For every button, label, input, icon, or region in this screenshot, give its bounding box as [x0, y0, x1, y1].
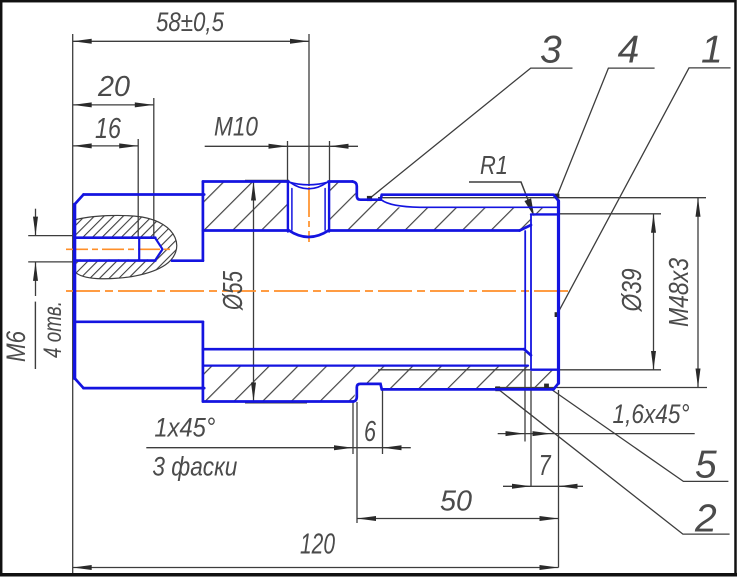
- arrows 6 (outside): [334, 445, 353, 450]
- svg-text:R1: R1: [480, 150, 508, 180]
- svg-text:M10: M10: [214, 112, 258, 142]
- M10 root line right: [324, 189, 326, 231]
- through bore bottom edge: [75, 320, 203, 323]
- thread crest bottom: [382, 383, 559, 389]
- M10 thread hole side right: [328, 183, 330, 232]
- flange top edge: [84, 193, 205, 196]
- M6 drill cone: [155, 238, 162, 260]
- M6 hole interior (white): [75, 239, 163, 259]
- recess d39 bottom edge: [531, 369, 559, 371]
- svg-text:4 отв.: 4 отв.: [39, 301, 67, 358]
- arrows 1,6x45: [506, 431, 525, 436]
- svg-text:120: 120: [300, 529, 335, 561]
- extension line 20 right: [153, 98, 155, 238]
- arrows 58: [73, 39, 92, 44]
- M10 root line left: [291, 189, 293, 231]
- step to thread neck top: [353, 182, 382, 200]
- dimension line d39: [653, 214, 655, 370]
- svg-text:2: 2: [694, 497, 717, 540]
- body d55 bottom edge: [203, 400, 354, 403]
- arrows 20: [73, 102, 92, 107]
- hatch: upper wall section left of M10 hole: [203, 182, 288, 231]
- hatch: upper wall section right of M10 hole: [330, 182, 559, 231]
- svg-text:7: 7: [539, 450, 552, 482]
- leader dot 2: [495, 386, 500, 391]
- svg-text:50: 50: [440, 486, 472, 518]
- inner line lower wall: [203, 365, 528, 367]
- extension line d39 top: [559, 213, 662, 215]
- svg-text:1,6x45°: 1,6x45°: [613, 399, 690, 429]
- leader callout 4: [557, 68, 655, 196]
- arrows 16: [73, 143, 92, 148]
- dimension line M48x3: [697, 198, 699, 388]
- local section outline around M6 hole: [75, 215, 177, 278]
- dimension line 6 and 1x45 leader bar: [146, 447, 411, 449]
- leader R1: [469, 182, 530, 205]
- leader dot 5: [544, 384, 549, 389]
- M6 hole top line: [75, 236, 156, 239]
- svg-text:1x45°: 1x45°: [154, 413, 215, 443]
- chamfer top-left corner: [75, 195, 84, 205]
- extension line left face (58/20/16/120 dims): [72, 34, 74, 574]
- dimension line 120: [73, 567, 559, 569]
- extension line M48 top: [378, 197, 706, 199]
- arrows 7 (outside): [512, 484, 531, 489]
- svg-text:1: 1: [701, 29, 723, 72]
- cavity top edge: [203, 229, 289, 232]
- M10 thread hole side left: [287, 183, 289, 232]
- svg-text:58±0,5: 58±0,5: [156, 7, 225, 37]
- dimension line 1,6x45: [498, 433, 695, 435]
- edge overdraw bottom: [245, 402, 307, 404]
- extension lines recess (1,6x45 / 7): [524, 352, 526, 442]
- arrows M6 (outside): [33, 217, 38, 236]
- arrows d39: [651, 214, 656, 233]
- right end face: [557, 201, 560, 383]
- center line M6 hole axis: [66, 248, 170, 250]
- svg-text:16: 16: [95, 113, 122, 145]
- left face: [73, 204, 76, 378]
- section step face upper: [202, 182, 205, 261]
- center line main axis: [66, 290, 572, 292]
- chamfer edge line in cavity: [524, 231, 526, 349]
- leader dot 3: [367, 196, 372, 201]
- body d55 top edge: [203, 180, 289, 183]
- dimension line 16: [73, 145, 139, 147]
- extension line d39 bottom: [378, 369, 661, 371]
- arrow R1: [524, 198, 534, 216]
- M10 mouth chamfer arc inner: [290, 182, 327, 189]
- arrows 50: [357, 516, 376, 521]
- arrows 120: [73, 565, 92, 570]
- center line M10 hole axis: [308, 187, 310, 242]
- leader callout 2: [498, 389, 730, 534]
- dimension line 50: [357, 518, 559, 520]
- extension line M48 bottom: [495, 387, 707, 389]
- leader dot 1: [555, 312, 560, 317]
- cavity bottom edge: [203, 348, 524, 351]
- recess step face: [530, 214, 532, 369]
- svg-text:5: 5: [695, 443, 717, 486]
- dimension line d55: [253, 182, 255, 402]
- dimension line 20: [73, 104, 154, 106]
- recess d39 top edge: [531, 213, 559, 215]
- thread crest top: [382, 195, 559, 201]
- svg-text:6: 6: [364, 416, 377, 448]
- chamfer cavity to recess bottom: [524, 349, 531, 355]
- dimension line 58±0,5: [73, 40, 309, 42]
- extension lines 6 / 50 groove: [352, 402, 354, 454]
- step to thread neck bottom: [354, 384, 382, 402]
- M10 drill point bulge: [289, 231, 329, 238]
- leader dot 4: [555, 194, 560, 199]
- extension line right face (down to 120): [558, 390, 560, 568]
- thread root line top: [382, 200, 558, 207]
- dimension line M6 (vertical, outside arrows): [35, 209, 37, 236]
- leader callout 1: [557, 68, 731, 315]
- through bore top edge: [172, 259, 203, 262]
- chamfer cavity to recess top: [520, 225, 531, 231]
- dimension line M10: [205, 145, 358, 147]
- svg-text:3: 3: [540, 29, 562, 72]
- dimension line 7: [503, 485, 583, 487]
- svg-text:M6: M6: [1, 330, 31, 362]
- M6 thread end: [138, 238, 140, 261]
- extension line 58 right (M10 axis): [308, 34, 310, 186]
- M10 mouth chamfer arc outer: [288, 182, 329, 185]
- svg-text:4: 4: [618, 29, 640, 72]
- extension lines M10: [287, 141, 289, 182]
- extension line 16 right: [137, 139, 139, 238]
- arrows M48x3: [696, 198, 701, 217]
- arrows d55: [251, 182, 256, 201]
- flange bottom edge: [84, 387, 205, 390]
- svg-text:20: 20: [97, 71, 130, 103]
- M6 hole bottom line: [75, 259, 156, 262]
- svg-text:3 фаски: 3 фаски: [152, 452, 237, 482]
- hatch: lower wall section: [203, 366, 559, 402]
- leader callout 5: [547, 386, 729, 481]
- leader callout 3: [370, 68, 573, 198]
- chamfer bottom-left corner: [75, 378, 84, 388]
- svg-text:Ø39: Ø39: [616, 269, 647, 313]
- svg-text:M48x3: M48x3: [663, 258, 694, 327]
- section step face lower: [202, 322, 205, 402]
- arrows M10 (outside): [269, 144, 288, 149]
- extension lines M6 hole: [28, 235, 73, 237]
- svg-text:Ø55: Ø55: [217, 271, 248, 311]
- edge overdraw top (d55 arrow shelf): [245, 179, 289, 181]
